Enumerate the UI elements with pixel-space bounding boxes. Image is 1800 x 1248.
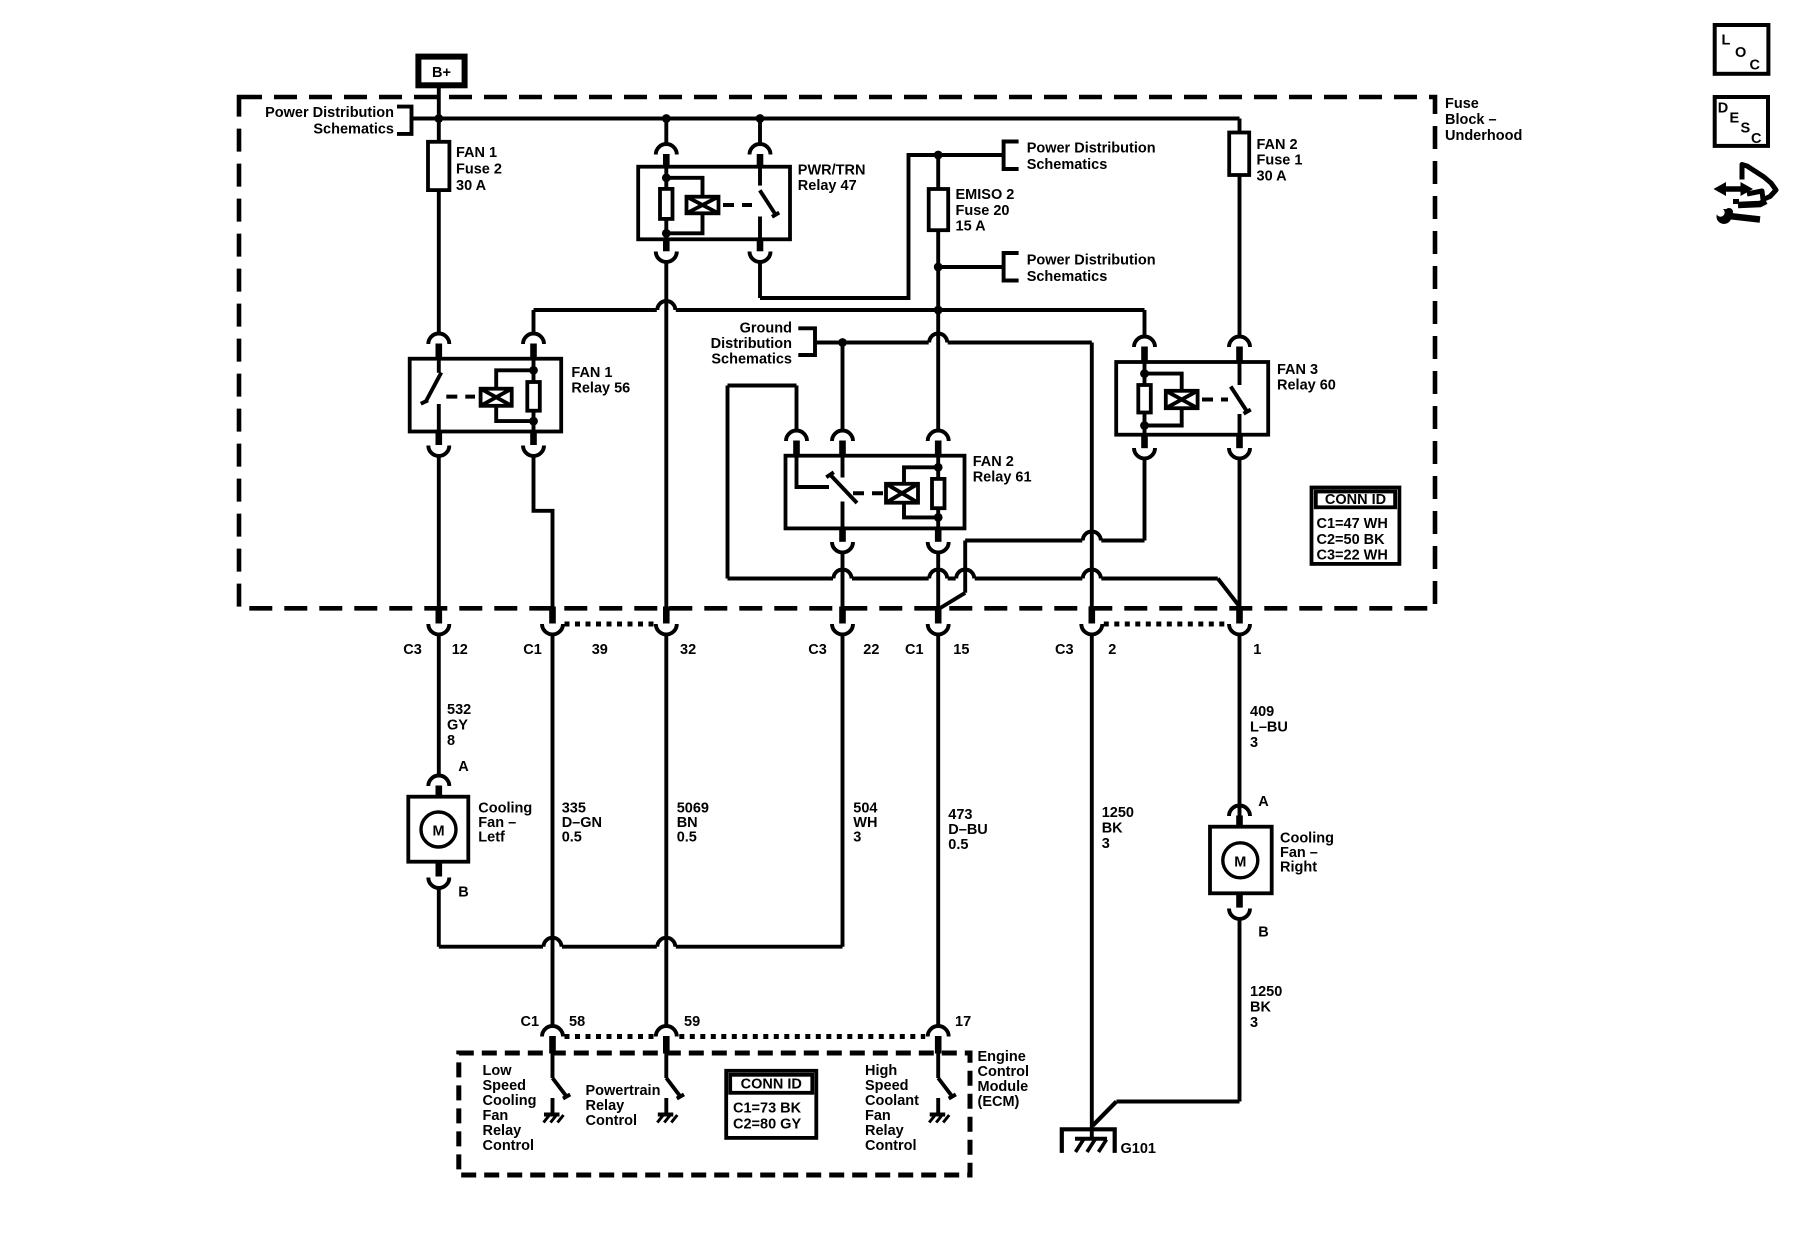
svg-text:GY: GY: [447, 718, 468, 734]
label: Power Distribution Schematics (lower right): [1027, 253, 1156, 286]
wire: ignition coil rail to relay coils: [534, 308, 1145, 312]
node B (fan left): [458, 885, 468, 901]
label: 17: [955, 1014, 971, 1030]
svg-text:Letf: Letf: [478, 830, 505, 846]
wire: ground rail drop to connector C3-2: [1090, 343, 1094, 608]
junction node: B+ at bus: [434, 114, 443, 123]
svg-text:C3=22 WH: C3=22 WH: [1317, 548, 1388, 564]
wire hop: rail540 over wire C3-2: [1082, 532, 1101, 544]
junction node: EMISO bottom tap: [934, 263, 943, 272]
svg-text:E: E: [1730, 111, 1740, 127]
label: PWR/TRN Relay 47: [798, 163, 866, 195]
label: C1 58: [521, 1014, 586, 1030]
svg-text:0.5: 0.5: [562, 830, 582, 846]
svg-text:Fuse 1: Fuse 1: [1257, 153, 1303, 169]
wire: B+ down through FAN1 fuse to relay56 switch: [437, 86, 441, 334]
connector: relay47 switch pin bottom: [750, 239, 771, 262]
wire hop: rail578 over wire C3-22: [833, 570, 852, 582]
connector line C1 dotted (39 to 32): [565, 622, 655, 627]
wire 1250 BK: connector C3-2 down to ground G101: [1090, 634, 1094, 1139]
svg-text:Schematics: Schematics: [711, 352, 792, 368]
svg-text:3: 3: [1102, 836, 1110, 852]
svg-text:C1=47 WH: C1=47 WH: [1317, 516, 1388, 532]
label: wire 532 GY 8: [447, 702, 471, 749]
svg-text:L–BU: L–BU: [1250, 720, 1288, 736]
svg-text:58: 58: [569, 1014, 585, 1030]
svg-text:EMISO 2: EMISO 2: [956, 187, 1015, 203]
relay K60: FAN 3 Relay 60: [1116, 362, 1268, 435]
svg-text:8: 8: [447, 733, 455, 749]
svg-text:473: 473: [948, 807, 972, 823]
connector pin 17 (ECM): [928, 1026, 949, 1054]
junction node: bus to relay47 switch: [756, 114, 765, 123]
svg-text:BK: BK: [1250, 1000, 1271, 1016]
CONN ID table (ECM): [726, 1071, 816, 1138]
connector C1 pin 15 (fuse block bottom): [928, 607, 949, 635]
svg-text:Control: Control: [483, 1138, 535, 1154]
svg-text:3: 3: [1250, 735, 1258, 751]
wire 532 GY: connector C3-12 to cooling fan left A: [437, 634, 441, 776]
label: C1 15: [905, 642, 969, 658]
svg-text:30 A: 30 A: [1257, 169, 1288, 185]
junction node: ground rail to relay61: [838, 338, 847, 347]
label: Ground Distribution Schematics: [711, 321, 792, 368]
wire hop: fan left return over wire 39: [543, 938, 562, 950]
svg-text:59: 59: [684, 1014, 700, 1030]
connector C1 pin 39 (fuse block bottom): [542, 607, 563, 635]
wire: FAN2 fuse down to relay60 switch: [1238, 119, 1242, 337]
svg-text:Module: Module: [978, 1079, 1029, 1095]
connector line C3 dotted (2 to 1): [1104, 622, 1228, 627]
svg-text:B: B: [1258, 925, 1268, 941]
connector: relay61 common pin top: [832, 431, 853, 457]
svg-text:M: M: [432, 824, 444, 840]
connector: relay61 coil pin top: [928, 431, 949, 457]
svg-text:Fan: Fan: [865, 1108, 891, 1124]
wire: relay47 coil return down to connector 32: [664, 262, 668, 608]
svg-text:O: O: [1735, 45, 1746, 61]
svg-text:Fuse 2: Fuse 2: [456, 162, 502, 178]
svg-text:PWR/TRN: PWR/TRN: [798, 163, 866, 179]
svg-text:Low: Low: [483, 1063, 513, 1079]
wire: relay61 common down to connector C3-22: [841, 553, 845, 608]
wire: B+ feed power bus: [412, 117, 1240, 121]
connector pin 32 (fuse block bottom): [656, 607, 677, 635]
relay K56: FAN 1 Relay 56: [410, 359, 562, 432]
label: High Speed Coolant Fan Relay Control: [865, 1063, 919, 1154]
svg-text:Powertrain: Powertrain: [586, 1083, 661, 1099]
label: Power Distribution Schematics (upper right): [1027, 141, 1156, 174]
label: wire 473 D-BU 0.5: [948, 807, 987, 853]
label: G101: [1121, 1141, 1156, 1157]
connector C3 pin 22 (fuse block bottom): [832, 607, 853, 635]
wire: relay60 coil return rail: [965, 539, 1144, 543]
svg-text:D–BU: D–BU: [948, 822, 987, 838]
wire: ground rail down to relay61 switch contact: [841, 343, 845, 431]
svg-text:Relay 60: Relay 60: [1277, 378, 1336, 394]
svg-text:M: M: [1234, 854, 1246, 870]
wire: relay61 switch loop left leg: [726, 386, 730, 579]
label: 1: [1253, 642, 1261, 658]
svg-text:2: 2: [1108, 642, 1116, 658]
connector line dotted ECM (58 to 59): [565, 1034, 655, 1039]
wire: relay60 switch output down to connector 1: [1238, 459, 1242, 608]
wire: relay61 coil return down to connector C1-15: [936, 553, 940, 608]
svg-text:3: 3: [1250, 1015, 1258, 1031]
svg-text:Schematics: Schematics: [313, 122, 394, 138]
svg-text:Relay: Relay: [586, 1098, 625, 1114]
wire: relay60 coil return down: [1143, 459, 1147, 541]
junction node: bus to relay47 coil: [662, 114, 671, 123]
svg-text:Power Distribution: Power Distribution: [1027, 253, 1156, 269]
svg-text:High: High: [865, 1063, 897, 1079]
connector: relay56 switch pin bottom: [428, 431, 449, 456]
svg-text:BK: BK: [1102, 821, 1123, 837]
connector: relay61 switch contact pin top: [786, 431, 807, 457]
icon: service action arrow with wrench: [1711, 165, 1776, 225]
connector pin 59 (ECM): [656, 1026, 677, 1054]
ECM driver: powertrain relay control: [657, 1054, 684, 1123]
svg-text:FAN 1: FAN 1: [571, 365, 612, 381]
svg-text:15 A: 15 A: [956, 219, 987, 235]
svg-text:B: B: [458, 885, 468, 901]
wire: cooling fan right motor B return to ground: [1093, 1102, 1240, 1126]
svg-text:Fuse: Fuse: [1445, 96, 1479, 112]
connector C1 pin 58 (ECM): [542, 1026, 563, 1054]
svg-text:1: 1: [1253, 642, 1261, 658]
svg-text:FAN 1: FAN 1: [456, 145, 497, 161]
wire hop: ground rail over EMISO wire: [929, 334, 948, 346]
wire 5069 BN: connector 32 down to ECM pin 59: [664, 634, 668, 1026]
connector: relay47 coil pin bottom: [656, 239, 677, 262]
node B (fan right): [1258, 925, 1268, 941]
svg-text:L: L: [1722, 33, 1731, 49]
svg-text:B+: B+: [432, 65, 451, 81]
label: Engine Control Module (ECM): [978, 1049, 1030, 1110]
junction node: EMISO to coil rail: [934, 306, 943, 315]
svg-text:Speed: Speed: [865, 1078, 909, 1094]
connector line dotted ECM (59 to 17): [679, 1034, 925, 1039]
connector: fan right terminal A: [1229, 806, 1250, 828]
label: FAN 1 Relay 56: [571, 365, 630, 397]
label: wire 504 WH 3: [853, 801, 877, 846]
svg-text:3: 3: [853, 830, 861, 846]
svg-text:15: 15: [953, 642, 969, 658]
connector: relay60 switch pin bottom: [1229, 434, 1250, 458]
svg-text:Relay: Relay: [865, 1123, 904, 1139]
wire 335 D-GN: connector C1-39 down to ECM pin 58: [551, 634, 555, 1026]
relay K61: FAN 2 Relay 61: [786, 456, 965, 529]
label: EMISO 2 Fuse 20 15 A: [956, 187, 1015, 235]
connector C3 pin 2 (fuse block bottom): [1081, 607, 1102, 635]
svg-text:Power Distribution: Power Distribution: [1027, 141, 1156, 157]
bracket: power distribution schematics (right of relay47): [1004, 142, 1019, 170]
bracket: power distribution schematics (top left): [397, 107, 412, 134]
B+ terminal: [418, 57, 464, 86]
label: Cooling Fan - Letf: [478, 801, 532, 846]
svg-text:C3: C3: [1055, 642, 1074, 658]
label: 59: [684, 1014, 700, 1030]
svg-text:1250: 1250: [1102, 805, 1134, 821]
label: Cooling Fan - Right: [1280, 831, 1334, 876]
wire: relay61 switch pin riser: [795, 386, 799, 431]
svg-text:30 A: 30 A: [456, 178, 487, 194]
connector: relay47 coil pin top: [656, 144, 677, 168]
svg-text:CONN ID: CONN ID: [1325, 492, 1386, 508]
ECM driver: low speed cooling fan relay control: [544, 1054, 571, 1123]
wire 473 D-BU: connector C1-15 down to ECM pin 17: [936, 634, 940, 1026]
connector pin 1 (fuse block bottom): [1229, 607, 1250, 635]
svg-text:D: D: [1718, 101, 1728, 117]
svg-text:FAN 2: FAN 2: [1257, 137, 1298, 153]
svg-text:C1=73 BK: C1=73 BK: [733, 1101, 802, 1117]
ground G101: [1062, 1129, 1115, 1153]
icon: DESC box: [1715, 97, 1768, 147]
wire hop: rail310 over wire32: [657, 301, 676, 313]
node A (fan left): [458, 759, 469, 775]
label: Power Distribution Schematics (top left): [265, 105, 394, 138]
connector: relay60 coil pin top: [1134, 337, 1155, 363]
label: Fuse Block - Underhood: [1445, 96, 1522, 144]
fuse block - underhood dashed boundary: [239, 97, 1435, 608]
wire: relay56 switch output down to connector C3-12: [437, 456, 441, 608]
svg-text:0.5: 0.5: [677, 830, 697, 846]
svg-text:FAN 3: FAN 3: [1277, 362, 1318, 378]
wire: relay47 switch output down: [758, 262, 762, 299]
connector: fan left terminal A: [428, 776, 449, 798]
wire hop: fan left return over wire 32: [657, 938, 676, 950]
wire hop: rail578 over wire C3-2: [1082, 570, 1101, 582]
svg-text:FAN 2: FAN 2: [973, 454, 1014, 470]
svg-text:532: 532: [447, 702, 471, 718]
wire 1250 BK: cooling fan right B down to return: [1238, 919, 1242, 1102]
wire: cooling fan left B to return rail: [437, 888, 441, 947]
svg-text:C: C: [1750, 58, 1761, 74]
label: wire 1250 BK 3 (fan right return): [1250, 984, 1282, 1031]
svg-text:C3: C3: [403, 642, 422, 658]
svg-text:Right: Right: [1280, 860, 1317, 876]
svg-text:Fan: Fan: [483, 1108, 509, 1124]
label: C3 22: [808, 642, 879, 658]
svg-text:Speed: Speed: [483, 1078, 527, 1094]
svg-text:S: S: [1741, 121, 1751, 137]
fuse F2: FAN 1 Fuse 2 30A: [428, 142, 449, 190]
svg-text:32: 32: [680, 642, 696, 658]
motor M: cooling fan left: [408, 797, 468, 862]
icon: LOC box: [1715, 25, 1769, 74]
wire: ground distribution rail: [815, 341, 1092, 345]
svg-text:C: C: [1751, 131, 1762, 147]
node A (fan right): [1258, 794, 1269, 810]
wire: bus down into relay47 coil: [664, 119, 668, 145]
connector: relay56 switch pin top: [428, 334, 449, 360]
label: FAN 1 Fuse 2 30 A: [456, 145, 502, 194]
svg-text:Relay 47: Relay 47: [798, 178, 857, 194]
svg-text:12: 12: [452, 642, 468, 658]
wire: relay47 output to power distribution rail: [760, 155, 1004, 298]
bracket: power distribution schematics (below EMISO): [1004, 253, 1019, 281]
label: wire 5069 BN 0.5: [677, 801, 709, 846]
svg-text:Distribution: Distribution: [711, 336, 792, 352]
svg-text:Coolant: Coolant: [865, 1093, 919, 1109]
svg-text:CONN ID: CONN ID: [741, 1076, 802, 1092]
svg-text:Fuse 20: Fuse 20: [956, 203, 1010, 219]
svg-text:Engine: Engine: [978, 1049, 1026, 1065]
label: wire 409 L-BU 3: [1250, 704, 1288, 751]
connector: relay56 coil pin top: [523, 334, 544, 360]
wire: bus down into relay47 switch: [758, 119, 762, 145]
wire: coil rail down into relay56 coil: [532, 310, 536, 334]
svg-text:0.5: 0.5: [948, 837, 968, 853]
svg-text:Schematics: Schematics: [1027, 269, 1108, 285]
wire: EMISO fuse column down to relay61 coil: [936, 155, 940, 431]
svg-text:C2=50 BK: C2=50 BK: [1317, 532, 1386, 548]
svg-text:Relay 61: Relay 61: [973, 470, 1032, 486]
label: wire 335 D-GN 0.5: [562, 801, 602, 846]
svg-text:Power Distribution: Power Distribution: [265, 105, 394, 121]
svg-text:Relay 56: Relay 56: [571, 381, 630, 397]
fuse F1: FAN 2 Fuse 1 30A: [1229, 133, 1249, 176]
svg-text:Cooling: Cooling: [483, 1093, 537, 1109]
wire: cooling fan left motor B return: [439, 945, 843, 949]
fuse: EMISO 2 Fuse 20 15A: [929, 189, 949, 230]
connector C3 pin 12 (fuse block bottom): [428, 607, 449, 635]
label: FAN 2 Relay 61: [973, 454, 1032, 486]
label: Low Speed Cooling Fan Relay Control: [483, 1063, 537, 1154]
svg-text:Control: Control: [865, 1138, 917, 1154]
relay K47: PWR/TRN Relay 47: [638, 167, 790, 240]
wire 504 WH: connector C3-22 down to fan left return rail: [841, 634, 845, 947]
connector: relay47 switch pin top: [750, 144, 771, 168]
wire: relay61 switch contact top link: [728, 384, 797, 388]
svg-text:(ECM): (ECM): [978, 1094, 1020, 1110]
wire: coil rail down into relay60 coil: [1143, 310, 1147, 337]
svg-text:C1: C1: [905, 642, 924, 658]
wire 409 L-BU: connector 1 down to cooling fan right A: [1238, 634, 1242, 816]
svg-text:A: A: [458, 759, 469, 775]
svg-text:A: A: [1258, 794, 1269, 810]
bracket: ground distribution schematics: [798, 328, 815, 355]
junction node: EMISO top tap: [934, 151, 943, 160]
connector: relay60 switch pin top: [1229, 337, 1250, 363]
label: C3 12: [403, 642, 468, 658]
svg-text:C3: C3: [808, 642, 827, 658]
connector: fan left terminal B: [428, 861, 449, 888]
svg-text:Control: Control: [978, 1064, 1030, 1080]
connector: relay61 coil pin bottom: [928, 528, 949, 553]
connector: relay61 common pin bottom: [832, 528, 853, 553]
wire hop: rail578 over relay60 coil drop: [956, 570, 975, 582]
label: C3 2: [1055, 642, 1116, 658]
svg-text:C1: C1: [523, 642, 542, 658]
label: C1 39: [523, 642, 608, 658]
wire: relay60 coil return drop to connector 15: [938, 541, 965, 610]
wire: relay56 coil output jog to connector C1-39: [534, 456, 553, 608]
wire: EMISO fuse tap to power distribution schematics: [938, 265, 1003, 269]
connector: relay60 coil pin bottom: [1134, 434, 1155, 458]
svg-text:C1: C1: [521, 1014, 540, 1030]
CONN ID table (fuse block): [1312, 488, 1400, 564]
svg-text:409: 409: [1250, 704, 1274, 720]
motor M: cooling fan right: [1210, 827, 1272, 894]
svg-text:1250: 1250: [1250, 984, 1282, 1000]
svg-text:Control: Control: [586, 1113, 638, 1129]
svg-text:Schematics: Schematics: [1027, 157, 1108, 173]
label: 32: [680, 642, 696, 658]
svg-text:22: 22: [863, 642, 879, 658]
label: Powertrain Relay Control: [586, 1083, 661, 1129]
connector: fan right terminal B: [1229, 893, 1250, 919]
wire: relay61 switch output rail to connector 1: [728, 579, 1240, 607]
label: wire 1250 BK 3 (to ground): [1102, 805, 1134, 852]
ECM driver: high speed coolant fan relay control: [929, 1054, 956, 1123]
connector: relay56 coil pin bottom: [523, 431, 544, 456]
label: FAN 2 Fuse 1 30 A: [1257, 137, 1303, 185]
svg-text:17: 17: [955, 1014, 971, 1030]
svg-text:C2=80 GY: C2=80 GY: [733, 1117, 801, 1133]
ECM dashed boundary: [459, 1053, 970, 1175]
svg-text:G101: G101: [1121, 1141, 1156, 1157]
svg-text:39: 39: [592, 642, 608, 658]
label: FAN 3 Relay 60: [1277, 362, 1336, 394]
svg-text:Underhood: Underhood: [1445, 128, 1522, 144]
svg-text:Ground: Ground: [740, 321, 792, 337]
wire hop: rail578 over wire C1-15: [929, 570, 948, 582]
svg-text:Block –: Block –: [1445, 112, 1497, 128]
svg-text:Relay: Relay: [483, 1123, 522, 1139]
